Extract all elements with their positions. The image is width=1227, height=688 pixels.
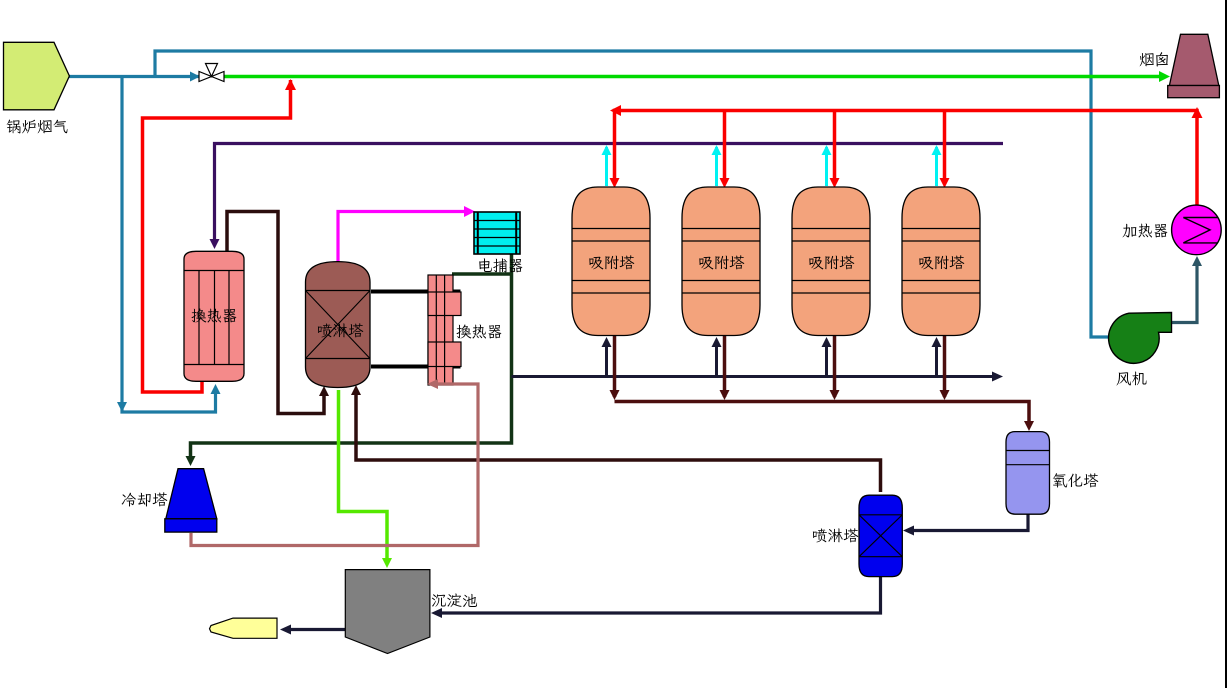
arrow navy up t2 xyxy=(712,337,722,347)
wire dark maroon exchanger-top to spray-tower-bottom xyxy=(227,212,324,414)
wire navy pool to outlet xyxy=(285,628,346,631)
wire navy riser t2 xyxy=(715,341,718,377)
chimney xyxy=(1169,34,1218,85)
svg-text:吸附塔: 吸附塔 xyxy=(918,253,965,273)
cooling tower xyxy=(166,469,217,519)
svg-text:冷却塔: 冷却塔 xyxy=(121,490,168,510)
arrow dark maroon up into spray tower xyxy=(319,386,329,396)
wire teal from boiler xyxy=(69,75,199,78)
wire navy blue tower to settling pool xyxy=(436,577,881,613)
arrow navy up t1 xyxy=(602,337,612,347)
wire cyan riser tower4 xyxy=(935,147,938,186)
boiler flue gas pentagon xyxy=(4,42,70,110)
wire navy riser t4 xyxy=(935,341,938,377)
arrow dark green down into cooling tower xyxy=(186,456,196,466)
wire black pipe bottom spray-exchanger xyxy=(371,365,461,369)
arrow teal down at corner xyxy=(117,402,127,412)
wire maroon drain t2 xyxy=(723,335,727,397)
svg-text:吸附塔: 吸附塔 xyxy=(698,253,745,273)
arrow navy up t4 xyxy=(932,337,942,347)
wire navy oxidation to blue spray tower xyxy=(908,514,1028,531)
wire magenta spray-tower to precipitator xyxy=(338,212,470,263)
arrow green right into chimney xyxy=(1159,71,1170,82)
arrow red down t1 xyxy=(610,178,620,188)
wire red bypass from exchanger to green line xyxy=(143,80,291,392)
wire maroon drain header to oxidation tower xyxy=(615,402,1030,428)
wire bright green spray tower to pool xyxy=(339,390,388,563)
electrostatic precipitator box xyxy=(474,212,520,254)
arrow maroon down at header t1 xyxy=(610,390,620,400)
wire purple header xyxy=(215,144,1004,245)
svg-text:喷淋塔: 喷淋塔 xyxy=(317,321,364,341)
arrow red down t4 xyxy=(940,178,950,188)
settling pool xyxy=(345,570,430,654)
spray tower brown xyxy=(306,262,371,388)
arrow red down t3 xyxy=(830,178,840,188)
adsorption tower 3 xyxy=(792,187,870,336)
arrow magenta right into precipitator xyxy=(464,206,475,217)
arrow red up into green line xyxy=(285,79,296,90)
svg-text:吸附塔: 吸附塔 xyxy=(808,253,855,273)
arrow teal up into exchanger bottom xyxy=(211,384,221,394)
arrow red down t2 xyxy=(720,178,730,188)
svg-text:换热器: 换热器 xyxy=(191,306,238,326)
arrow dark slate up into heater xyxy=(1192,256,1202,266)
svg-text:吸附塔: 吸附塔 xyxy=(588,253,635,273)
svg-text:喷淋塔: 喷淋塔 xyxy=(812,526,859,546)
svg-text:加热器: 加热器 xyxy=(1122,221,1169,241)
arrow navy right at header end xyxy=(992,372,1003,382)
arrow cyan up t2 xyxy=(712,145,722,155)
arrow cyan up t1 xyxy=(602,145,612,155)
wire rosybrown cooling return xyxy=(191,384,478,546)
right border xyxy=(1225,0,1227,688)
wire black pipe top spray-exchanger xyxy=(371,290,461,294)
svg-text:电捕器: 电捕器 xyxy=(477,256,524,276)
valve on green line xyxy=(199,72,212,82)
wire red hot header xyxy=(615,111,1198,208)
small heat exchanger columns xyxy=(428,275,453,385)
arrow navy left into outlet marker xyxy=(280,625,291,635)
adsorption tower 1 xyxy=(572,187,650,336)
arrow dark maroon up into spray tower bottom xyxy=(351,385,361,395)
fan scroll xyxy=(1109,313,1172,364)
wire maroon drain t3 xyxy=(833,335,837,397)
oxidation tower xyxy=(1006,432,1050,515)
wire dark green branch from small exchanger xyxy=(452,272,512,276)
arrow red left at header end xyxy=(610,105,621,116)
wire navy riser t3 xyxy=(825,341,828,377)
outlet marker yellow xyxy=(210,618,278,638)
arrow red up at heater riser xyxy=(1192,107,1203,118)
arrow bright green down into pool xyxy=(382,558,392,568)
arrow teal right into valve xyxy=(190,72,200,82)
wire cyan riser tower2 xyxy=(715,147,718,186)
arrow navy left into pool xyxy=(431,608,442,618)
blue spray tower xyxy=(859,495,902,576)
wire dark slate fan to heater xyxy=(1171,261,1197,323)
arrow navy left into blue tower xyxy=(903,526,914,536)
adsorption tower 2 xyxy=(682,187,760,336)
wire maroon drain t1 xyxy=(613,335,617,397)
wire cyan riser tower1 xyxy=(605,147,608,186)
svg-text:换热器: 换热器 xyxy=(456,322,503,342)
arrow maroon down at header t3 xyxy=(830,390,840,400)
wire red branch tower4 xyxy=(943,111,947,185)
adsorption tower 4 xyxy=(902,187,980,336)
svg-text:烟囱: 烟囱 xyxy=(1139,50,1170,70)
arrow navy up t3 xyxy=(822,337,832,347)
wire red branch tower3 xyxy=(833,111,837,185)
svg-text:沉淀池: 沉淀池 xyxy=(431,591,478,611)
wire dark green cooling supply xyxy=(191,254,512,461)
wire navy bottom header xyxy=(512,375,999,378)
arrow purple down into exchanger top xyxy=(210,239,220,249)
wire teal down-left branch to exchanger bottom xyxy=(122,77,216,413)
arrow maroon down at header t4 xyxy=(940,390,950,400)
svg-text:氧化塔: 氧化塔 xyxy=(1052,471,1099,491)
arrow rosybrown left into exchanger bottom xyxy=(427,379,438,389)
wire red branch tower2 xyxy=(723,111,727,185)
wire navy riser t1 xyxy=(605,341,608,377)
wire teal top header xyxy=(155,51,1110,337)
svg-text:风机: 风机 xyxy=(1116,369,1147,389)
wire green to chimney xyxy=(224,75,1166,79)
arrow cyan up t3 xyxy=(822,145,832,155)
wire dark maroon spray tower to blue spray tower xyxy=(356,389,881,492)
wire cyan riser tower3 xyxy=(825,147,828,186)
arrow cyan up t4 xyxy=(932,145,942,155)
arrow maroon down at header t2 xyxy=(720,390,730,400)
heater circle xyxy=(1172,205,1222,255)
heat exchanger vessel left xyxy=(184,251,244,381)
arrow maroon down into oxidation tower xyxy=(1024,421,1034,431)
svg-text:锅炉烟气: 锅炉烟气 xyxy=(6,117,68,137)
wire maroon drain t4 xyxy=(943,335,947,397)
